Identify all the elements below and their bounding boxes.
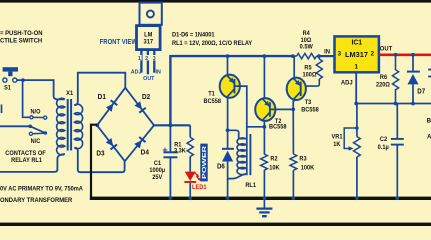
svg-text:BC558: BC558 <box>301 107 319 113</box>
svg-text:3,3K: 3,3K <box>174 148 187 154</box>
svg-text:CTILE SWITCH: CTILE SWITCH <box>0 37 43 44</box>
svg-text:2: 2 <box>371 51 375 58</box>
svg-text:1000µ: 1000µ <box>149 168 165 174</box>
svg-text:D6: D6 <box>217 163 225 170</box>
svg-text:POWER: POWER <box>202 146 208 179</box>
svg-text:VR1: VR1 <box>332 134 344 140</box>
svg-text:D1: D1 <box>98 94 106 101</box>
svg-text:C2: C2 <box>380 137 388 143</box>
svg-text:ADJ: ADJ <box>131 69 142 75</box>
svg-text:T1: T1 <box>208 91 215 97</box>
svg-text:317: 317 <box>144 39 154 45</box>
svg-text:C1: C1 <box>154 161 162 167</box>
svg-text:10Ω: 10Ω <box>301 38 312 44</box>
svg-text:220Ω: 220Ω <box>376 82 390 88</box>
svg-text:X1: X1 <box>66 90 74 97</box>
svg-text:RL1 = 12V, 200Ω, 1C/O RELAY: RL1 = 12V, 200Ω, 1C/O RELAY <box>172 40 252 47</box>
svg-text:RL1: RL1 <box>245 183 256 189</box>
svg-text:0.5W: 0.5W <box>300 44 314 50</box>
svg-text:RELAY RL1: RELAY RL1 <box>11 158 42 164</box>
svg-text:ADJ: ADJ <box>341 79 353 86</box>
svg-text:B: B <box>427 118 431 125</box>
svg-text:T3: T3 <box>305 100 312 106</box>
svg-text:S1: S1 <box>4 85 11 91</box>
svg-text:BC558: BC558 <box>269 124 287 130</box>
svg-text:0.1µ: 0.1µ <box>378 145 390 151</box>
svg-text:R6: R6 <box>380 75 388 81</box>
svg-text:D3: D3 <box>96 150 104 157</box>
svg-text:D7: D7 <box>417 88 425 95</box>
svg-text:R5: R5 <box>304 65 312 71</box>
svg-text:ONDARY TRANSFORMER: ONDARY TRANSFORMER <box>0 197 73 204</box>
svg-text:100K: 100K <box>301 165 315 171</box>
svg-text:N/C: N/C <box>31 139 41 145</box>
svg-text:BC558: BC558 <box>204 99 222 105</box>
svg-text:IN: IN <box>324 48 330 55</box>
svg-text:+: + <box>162 145 168 155</box>
svg-text:1: 1 <box>138 56 141 62</box>
svg-text:= PUSH-TO-ON: = PUSH-TO-ON <box>0 30 43 37</box>
svg-text:IN: IN <box>156 69 161 75</box>
svg-text:100Ω: 100Ω <box>303 72 317 78</box>
svg-text:LED1: LED1 <box>192 185 207 191</box>
svg-text:FRONT VIEW: FRONT VIEW <box>100 39 138 47</box>
svg-text:D1-D6 = 1N4001: D1-D6 = 1N4001 <box>172 31 215 38</box>
svg-text:A: A <box>427 133 431 140</box>
svg-text:0V AC PRIMARY TO 9V, 750mA: 0V AC PRIMARY TO 9V, 750mA <box>0 186 83 192</box>
svg-text:N/O: N/O <box>31 109 41 115</box>
svg-text:25V: 25V <box>152 175 162 181</box>
svg-text:IC1: IC1 <box>351 39 362 46</box>
svg-text:10K: 10K <box>269 165 280 171</box>
svg-text:LM: LM <box>144 32 152 38</box>
svg-text:3: 3 <box>153 56 156 62</box>
svg-text:D2: D2 <box>142 94 150 101</box>
svg-text:3: 3 <box>338 51 342 58</box>
svg-text:R3: R3 <box>299 156 307 162</box>
svg-text:R4: R4 <box>303 31 311 37</box>
svg-text:OUT: OUT <box>143 76 155 82</box>
svg-text:R2: R2 <box>270 156 278 162</box>
svg-text:LM317: LM317 <box>345 50 368 59</box>
svg-text:CONTACTS OF: CONTACTS OF <box>5 151 46 157</box>
svg-text:OUT: OUT <box>380 45 393 52</box>
svg-text:1: 1 <box>354 63 358 70</box>
svg-text:D4: D4 <box>141 149 149 156</box>
svg-text:1K: 1K <box>333 142 341 148</box>
svg-text:2: 2 <box>145 56 148 62</box>
